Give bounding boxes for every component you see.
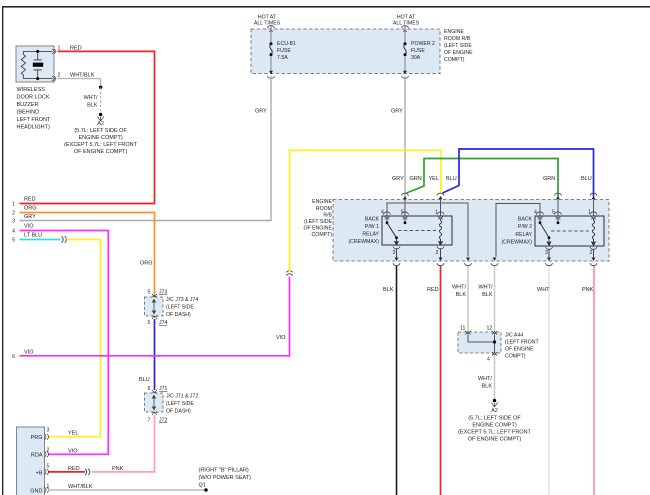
svg-text:5: 5 — [47, 464, 50, 470]
svg-text:VIO: VIO — [24, 224, 34, 230]
svg-text:OF ENGINE: OF ENGINE — [505, 347, 534, 353]
inline connector on wire 6 riser — [286, 271, 292, 276]
svg-text:RED: RED — [68, 466, 80, 472]
relay1 pin 2 — [436, 246, 445, 261]
svg-text:BLK: BLK — [87, 103, 98, 109]
svg-text:J72: J72 — [159, 418, 167, 424]
svg-text:ORG: ORG — [140, 261, 153, 267]
WHT/BLK label 1 — [452, 285, 467, 299]
feed stub into ECU-B1 fuse — [270, 26, 272, 29]
connector at J73 — [152, 294, 157, 298]
pin +B connector — [44, 469, 48, 475]
relay1 coil — [439, 219, 443, 245]
wire 2 ORG to J73 — [20, 213, 155, 298]
J73-J74 internal arrow — [152, 299, 155, 313]
inline connector on +B wire — [85, 469, 90, 475]
relay box caption — [303, 199, 332, 238]
wire GRY from ECU-B1 fuse down and left to edge connector 3 — [20, 76, 272, 221]
Q1 caption — [199, 468, 252, 489]
wire BLU jumper relay1 pin1 to relay2 pin1 — [443, 149, 594, 197]
svg-text:ROOM R/B: ROOM R/B — [444, 36, 471, 42]
WHT/ BLK label on ground lead — [83, 95, 98, 109]
pin PRG connector — [44, 434, 48, 440]
connector at A44 pin 11 — [466, 331, 471, 335]
svg-text:1: 1 — [47, 484, 50, 490]
svg-text:Q1: Q1 — [199, 483, 206, 489]
wire WHT/BLK from relay1 pin4 branch to J/C A44 pin 11 — [467, 266, 469, 332]
svg-text:A2: A2 — [491, 408, 498, 414]
svg-text:(CREWMAX): (CREWMAX) — [501, 240, 532, 246]
svg-text:BLK: BLK — [456, 292, 467, 298]
svg-text:WHT/BLK: WHT/BLK — [70, 73, 95, 79]
svg-text:GRY: GRY — [391, 109, 403, 115]
svg-text:OF DASH): OF DASH) — [166, 312, 191, 318]
J/C J71 caption — [166, 393, 198, 414]
svg-text:WHT/: WHT/ — [452, 285, 467, 291]
connector at fuse box top edge (POWER 2) — [402, 26, 409, 29]
svg-text:4: 4 — [487, 357, 490, 363]
svg-text:1: 1 — [588, 210, 591, 216]
connector at fuse box bottom edge (ECU-B1) — [269, 71, 273, 74]
svg-text:6: 6 — [148, 386, 151, 392]
pin GND connector — [44, 487, 48, 493]
relay1 pin 1 connector — [437, 212, 444, 215]
svg-text:RELAY: RELAY — [362, 231, 379, 237]
svg-text:(CREWMAX): (CREWMAX) — [348, 239, 379, 245]
svg-text:5: 5 — [148, 290, 151, 296]
relay2 pin 5 connector — [555, 212, 562, 215]
svg-text:VIO: VIO — [276, 335, 286, 341]
svg-text:(5.7L: LEFT SIDE OF: (5.7L: LEFT SIDE OF — [468, 416, 521, 422]
svg-text:VIO: VIO — [68, 448, 78, 454]
engine room R/B fuse box — [251, 29, 440, 74]
svg-text:OF ENGINE COMPT): OF ENGINE COMPT) — [468, 437, 522, 443]
resistor inside buzzer — [21, 51, 25, 78]
J/C J71-J72 box — [144, 393, 163, 412]
svg-text:2: 2 — [590, 250, 593, 256]
svg-text:P/W 1: P/W 1 — [365, 224, 379, 230]
pin 1 connector of buzzer — [52, 49, 56, 54]
svg-text:3: 3 — [12, 219, 15, 225]
svg-text:5: 5 — [148, 320, 151, 326]
svg-text:WHT/: WHT/ — [478, 376, 493, 382]
svg-text:(LEFT SIDE: (LEFT SIDE — [304, 219, 332, 225]
connectors at R/B bottom edge — [393, 258, 597, 266]
relay2 caption — [501, 216, 532, 245]
wire 6 VIO to inline connector — [20, 277, 290, 356]
svg-text:COMPT): COMPT) — [312, 232, 333, 238]
relay1 pin 5 connector — [402, 212, 409, 215]
svg-text:RED: RED — [70, 46, 82, 52]
wire 5 LT BLU segment — [20, 239, 61, 241]
border frame left — [2, 6, 3, 495]
relay2 coil — [592, 219, 596, 246]
svg-text:A2: A2 — [97, 121, 104, 127]
svg-text:ENGINE: ENGINE — [312, 199, 332, 205]
svg-text:PRG: PRG — [31, 435, 43, 441]
border frame top — [2, 6, 650, 8]
fuse box caption — [444, 29, 473, 63]
inline connector on wire 5 — [62, 236, 67, 242]
wire RED from buzzer pin1 to left edge connector 1 — [20, 51, 155, 203]
svg-text:5: 5 — [12, 238, 15, 244]
svg-text:FUSE: FUSE — [411, 48, 425, 54]
svg-text:BACK: BACK — [518, 216, 533, 222]
relay2 pin 3 — [545, 247, 553, 261]
svg-text:J73: J73 — [159, 290, 167, 296]
svg-text:(W/O POWER SEAT): (W/O POWER SEAT) — [199, 475, 252, 481]
svg-text:GRY: GRY — [24, 214, 36, 220]
svg-text:ENGINE: ENGINE — [444, 29, 464, 35]
svg-text:WHT/: WHT/ — [478, 285, 493, 291]
connector at R/B top edge (GRN relay2) — [555, 193, 562, 196]
A44 internal wires — [468, 335, 496, 354]
relay 2 internal feed wires — [496, 200, 594, 257]
wire 6 VIO overlay at crossing — [149, 355, 160, 357]
svg-text:OF ENGINE COMPT): OF ENGINE COMPT) — [74, 149, 128, 155]
ECU-B1 fuse labels — [277, 41, 296, 61]
connector at fuse box top edge (ECU-B1) — [268, 26, 275, 29]
wire GRY from POWER 2 fuse down to relay 1 pin 5 — [404, 76, 406, 197]
svg-text:J71: J71 — [159, 386, 167, 392]
svg-text:OF DASH): OF DASH) — [166, 408, 191, 414]
wire WHT/BLK from A44 pin4 to ground — [494, 356, 496, 400]
POWER 2 fuse labels — [411, 41, 435, 61]
svg-text:WHT/: WHT/ — [83, 95, 98, 101]
connector at R/B top edge (YEL/BLU) — [437, 193, 444, 196]
connector at A44 pin 4 — [492, 352, 497, 356]
connector at J71 — [152, 390, 157, 394]
buzzer element — [33, 51, 43, 78]
ground A2 caption (buzzer) — [64, 121, 137, 155]
svg-text:(BEHIND: (BEHIND — [17, 110, 40, 116]
wire RED from relay1 pin2 to bottom — [440, 266, 442, 495]
relay2 switch — [539, 219, 551, 246]
svg-text:(5.7L: LEFT SIDE OF: (5.7L: LEFT SIDE OF — [74, 128, 127, 134]
svg-text:DOOR LOCK: DOOR LOCK — [17, 95, 50, 101]
svg-text:HEADLIGHT): HEADLIGHT) — [17, 125, 50, 131]
relay2 pin5 contact — [557, 219, 560, 224]
svg-text:J/C J71 & J72: J/C J71 & J72 — [166, 393, 198, 399]
wire 4 VIO to RDA pin — [20, 231, 109, 455]
bottom-left component box — [17, 427, 45, 495]
svg-text:12: 12 — [487, 326, 493, 332]
svg-text:YEL: YEL — [429, 176, 439, 182]
buzzer top internal wire — [23, 50, 52, 53]
relay1 pin 4 connector — [384, 212, 391, 215]
svg-text:J/C J73 & J74: J/C J73 & J74 — [166, 297, 198, 303]
svg-text:(EXCEPT 5.7L: LEFT FRONT: (EXCEPT 5.7L: LEFT FRONT — [64, 142, 137, 148]
svg-text:5: 5 — [552, 210, 555, 216]
svg-text:RDA: RDA — [31, 453, 43, 459]
wire GRN jumper relay1 pin5 to relay2 pin5 — [407, 159, 559, 197]
svg-text:OF ENGINE: OF ENGINE — [444, 50, 473, 56]
svg-text:BACK: BACK — [365, 216, 380, 222]
relay 1 internal feed wires — [387, 200, 468, 257]
relay1 switch — [386, 219, 399, 245]
left edge connector numbers 1-6 — [12, 202, 15, 360]
connector at J74 — [152, 316, 157, 320]
svg-text:BLK: BLK — [383, 287, 394, 293]
svg-text:7: 7 — [148, 418, 151, 424]
svg-text:(LEFT SIDE: (LEFT SIDE — [166, 304, 194, 310]
svg-text:BLU: BLU — [581, 176, 592, 182]
relay1 pin5 contact — [404, 219, 407, 224]
svg-text:POWER 2: POWER 2 — [411, 41, 435, 47]
connector at R/B top edge (BLU relay2) — [590, 193, 597, 196]
svg-text:LT BLU: LT BLU — [24, 233, 42, 239]
svg-text:RED: RED — [24, 197, 36, 203]
J/C A44 caption — [505, 333, 539, 360]
back P/W 1 relay box — [382, 216, 452, 245]
svg-text:GRY: GRY — [392, 176, 404, 182]
wire colour labels above relay R/B — [392, 176, 592, 182]
wire BLU from J74 to J71 — [154, 319, 156, 390]
HOT AT ALL TIMES label (right fuse) — [393, 15, 420, 27]
svg-text:PNK: PNK — [112, 466, 124, 472]
svg-text:WIRELESS: WIRELESS — [17, 87, 46, 93]
svg-text:WHT/BLK: WHT/BLK — [68, 484, 93, 490]
wire PNK from J72 to +B — [92, 415, 155, 472]
relay2 pin 4 connector — [537, 212, 544, 215]
svg-text:3: 3 — [393, 250, 396, 256]
connector at J72 — [152, 412, 157, 416]
svg-text:ENGINE COMPT): ENGINE COMPT) — [78, 135, 122, 141]
wire WHT/BLK from buzzer pin2 — [58, 79, 101, 88]
svg-text:2: 2 — [12, 211, 15, 217]
J71-J72 internal arrow — [152, 395, 155, 409]
svg-text:6: 6 — [12, 354, 15, 360]
svg-text:GRN: GRN — [543, 176, 555, 182]
svg-text:2: 2 — [58, 73, 61, 79]
connector at fuse box bottom edge (POWER 2) — [403, 71, 407, 74]
wire WHT from relay2 pin3 to bottom — [548, 266, 550, 495]
svg-text:(EXCEPT 5.7L: LEFT FRONT: (EXCEPT 5.7L: LEFT FRONT — [458, 430, 531, 436]
relay2 pin 1 connector — [590, 212, 597, 215]
svg-text:3: 3 — [47, 428, 50, 434]
POWER 2 fuse element — [404, 29, 407, 74]
svg-text:4: 4 — [381, 210, 384, 216]
buzzer caption — [17, 87, 51, 131]
splice dot — [99, 86, 102, 89]
splice Q1 — [204, 488, 207, 491]
svg-text:COMPT): COMPT) — [444, 57, 465, 63]
svg-text:YEL: YEL — [68, 431, 78, 437]
svg-text:ALL TIMES: ALL TIMES — [254, 21, 281, 27]
pin RDA connector — [44, 451, 48, 457]
relay1 pin labels 4 5 1 — [381, 210, 438, 216]
svg-text:BUZZER: BUZZER — [17, 102, 39, 108]
relay1 mechanical link — [398, 230, 436, 232]
svg-text:GRY: GRY — [255, 109, 267, 115]
WHT/ BLK label at A44 ground lead — [478, 376, 493, 390]
svg-text:J74: J74 — [159, 320, 167, 326]
svg-text:ORG: ORG — [24, 206, 37, 212]
svg-text:WHT: WHT — [537, 287, 550, 293]
svg-text:4: 4 — [12, 229, 15, 235]
connector at R/B top edge (GRY/GRN) — [402, 193, 409, 196]
svg-text:30A: 30A — [411, 55, 421, 61]
HOT AT ALL TIMES label (left fuse) — [254, 15, 281, 27]
relay1 pin 3 — [393, 246, 401, 261]
relay2 pin labels 4 5 1 — [534, 210, 591, 216]
svg-text:BLK: BLK — [482, 384, 493, 390]
svg-text:VIO: VIO — [24, 350, 34, 356]
svg-text:(LEFT SIDE: (LEFT SIDE — [166, 401, 194, 407]
svg-text:(LEFT FRONT: (LEFT FRONT — [505, 340, 539, 346]
svg-text:R/B: R/B — [323, 213, 332, 219]
svg-text:J/C A44: J/C A44 — [505, 333, 523, 339]
svg-text:+B: +B — [36, 470, 43, 476]
svg-text:OF ENGINE: OF ENGINE — [303, 226, 332, 232]
wire WHT/BLK from relay2 pin4 branch to J/C A44 pin 12 — [494, 266, 496, 332]
wireless door lock buzzer box — [16, 46, 54, 82]
svg-text:GRN: GRN — [410, 176, 422, 182]
svg-text:4: 4 — [534, 210, 537, 216]
J/C A44 box — [458, 332, 501, 353]
J/C J73 caption — [166, 297, 198, 318]
svg-text:1: 1 — [12, 202, 15, 208]
svg-text:ECU-B1: ECU-B1 — [277, 41, 296, 47]
connector at A44 pin 12 — [492, 331, 497, 335]
svg-text:ROOM: ROOM — [316, 206, 332, 212]
svg-text:3: 3 — [545, 250, 548, 256]
wire WHT/BLK from GND to Q1 — [48, 489, 206, 491]
wire YEL riser from connector to relay 1 pin 1 — [290, 150, 442, 271]
wire BLK from relay1 pin3 to bottom — [396, 266, 398, 495]
ground A2 symbol (buzzer) — [97, 113, 103, 121]
ground A2 caption (A44) — [458, 408, 531, 443]
svg-text:(LEFT SIDE: (LEFT SIDE — [444, 43, 472, 49]
wire RED from +B pin to connector — [48, 471, 85, 473]
svg-text:LEFT FRONT: LEFT FRONT — [17, 117, 51, 123]
wire 5 YEL to PRG pin — [48, 240, 100, 437]
relay1 caption — [348, 216, 379, 245]
wire PNK from relay2 pin2 to bottom — [593, 266, 595, 495]
svg-text:BLK: BLK — [482, 292, 493, 298]
svg-text:ENGINE COMPT): ENGINE COMPT) — [472, 423, 516, 429]
WHT/BLK label 2 — [478, 285, 493, 299]
ECU-B1 fuse element — [270, 29, 273, 74]
buzzer bottom internal wire — [23, 77, 52, 80]
relay2 mechanical link — [551, 230, 589, 232]
svg-text:FUSE: FUSE — [277, 48, 291, 54]
svg-text:BLU: BLU — [139, 377, 150, 383]
svg-text:RED: RED — [427, 287, 439, 293]
svg-text:RELAY: RELAY — [515, 232, 532, 238]
svg-text:(RIGHT "B" PILLAR): (RIGHT "B" PILLAR) — [199, 468, 249, 474]
svg-text:PNK: PNK — [582, 287, 594, 293]
svg-text:7.5A: 7.5A — [277, 55, 288, 61]
J/C J73-J74 box — [144, 297, 163, 316]
svg-text:2: 2 — [436, 250, 439, 256]
pin 2 connector of buzzer — [52, 76, 56, 81]
svg-text:P/W 2: P/W 2 — [518, 224, 532, 230]
svg-text:11: 11 — [460, 326, 465, 332]
engine room R/B relay box — [333, 200, 609, 262]
svg-text:COMPT): COMPT) — [505, 354, 526, 360]
ground A2 symbol (A44) — [491, 399, 497, 407]
feed stub into POWER 2 fuse — [404, 26, 406, 29]
svg-text:BLU: BLU — [446, 176, 457, 182]
svg-text:2: 2 — [47, 448, 50, 454]
svg-text:GND: GND — [30, 489, 42, 495]
back P/W 2 relay box — [535, 216, 604, 246]
dashed ground lead — [100, 87, 102, 113]
svg-text:1: 1 — [435, 210, 438, 216]
relay2 pin 2 — [590, 247, 598, 261]
